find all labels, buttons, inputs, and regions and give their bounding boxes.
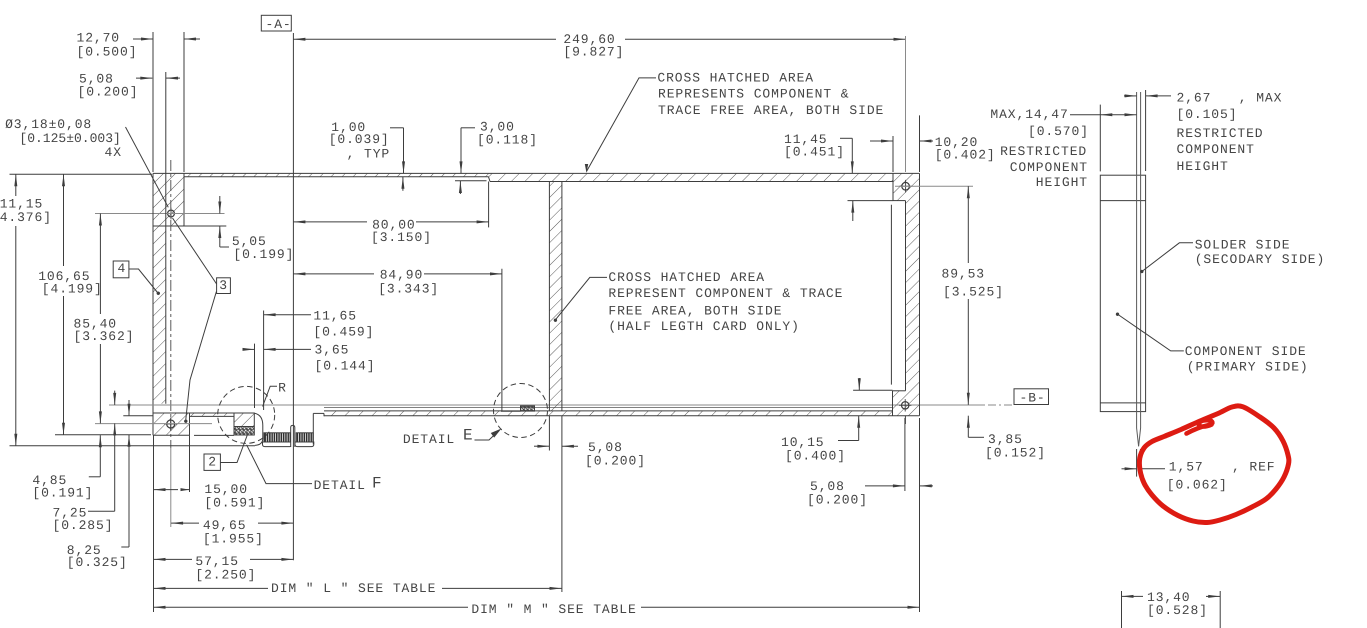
extension line x=184 top [183, 32, 185, 172]
bottom hole center line horizontal [95, 423, 212, 425]
svg-text:[0.528]: [0.528] [1147, 603, 1208, 618]
svg-text:(PRIMARY SIDE): (PRIMARY SIDE) [1187, 360, 1309, 375]
svg-text:, REF: , REF [1232, 460, 1276, 475]
extension line x=501.9 [501, 269, 503, 411]
svg-text:, TYP: , TYP [347, 147, 391, 162]
svg-text:2,67: 2,67 [1177, 90, 1212, 105]
svg-text:-B-: -B- [1020, 391, 1046, 406]
extension line x=919.5 top [919, 115, 921, 172]
leader of half-length note [555, 277, 607, 319]
card-edge connector fingers segment 2 [296, 433, 313, 445]
extension line envelope left edge top [1099, 105, 1101, 172]
svg-text:[0.039]: [0.039] [329, 132, 390, 147]
svg-text:2: 2 [208, 454, 217, 469]
leader item 4 [129, 269, 158, 293]
svg-text:[0.105]: [0.105] [1177, 107, 1238, 122]
svg-text:[1.955]: [1.955] [203, 532, 264, 547]
svg-text:3: 3 [219, 278, 228, 293]
top strip right bottom edge [490, 181, 893, 183]
svg-text:[0.199]: [0.199] [233, 247, 294, 262]
svg-text:CROSS HATCHED AREA: CROSS HATCHED AREA [608, 270, 765, 285]
top trace-free strip (left thin part) hatch [184, 173, 489, 176]
detail F block lower cross-hatch [234, 427, 254, 436]
bottom trace-free strip hatch [324, 411, 893, 416]
rounded slot right wall with radius R [255, 413, 263, 445]
svg-text:3,65: 3,65 [315, 343, 350, 358]
svg-text:[0.402]: [0.402] [935, 148, 996, 163]
detail E pad block [521, 406, 535, 411]
svg-text:-A-: -A- [266, 17, 292, 32]
leader solder side [1143, 243, 1194, 271]
svg-text:11,65: 11,65 [313, 309, 357, 324]
svg-text:COMPONENT SIDE: COMPONENT SIDE [1185, 344, 1307, 359]
bottom-left bracket block [153, 413, 190, 435]
mounting hole top-left [168, 210, 175, 217]
notch bottom edge line [194, 434, 234, 436]
keep-out line y=200.6 extension [848, 200, 894, 202]
extension line card right edge bottom [919, 418, 921, 612]
svg-text:, MAX: , MAX [1239, 90, 1283, 105]
left edge vertical chain line through holes [170, 160, 172, 448]
notch floor right of fingers [313, 412, 324, 414]
svg-text:[3.343]: [3.343] [378, 282, 439, 297]
keep-out line y=390.3 extension [853, 389, 892, 391]
detail F block upper hatch [234, 413, 254, 427]
extension line card left edge top [152, 32, 154, 172]
center hatched bar (half-length card limit) [549, 182, 562, 411]
svg-text:[0.125±0.003]: [0.125±0.003] [19, 131, 120, 146]
top-left block bottom extension [184, 225, 226, 227]
svg-text:4X: 4X [105, 145, 122, 160]
item box 4 [113, 261, 129, 278]
leader item 3 to bottom hole [186, 292, 217, 420]
svg-text:Ø3,18±0,08: Ø3,18±0,08 [5, 117, 92, 132]
item box 2 [204, 454, 220, 470]
inner boundary line right keep-out [890, 205, 892, 385]
side view PCB right surface [1140, 92, 1142, 428]
svg-text:[3.525]: [3.525] [943, 284, 1004, 299]
bracket bottom extension line [10, 445, 256, 447]
svg-text:1,57: 1,57 [1169, 460, 1204, 475]
extension line bar right edge [561, 416, 563, 592]
right wall of connector notch [312, 413, 314, 444]
svg-text:REPRESENTS COMPONENT &: REPRESENTS COMPONENT & [658, 86, 849, 101]
detail E dashed circle [494, 384, 548, 438]
extension line x=893 [892, 136, 894, 172]
svg-text:[0.285]: [0.285] [53, 518, 114, 533]
left strip inner edge / 5,08 extension line [165, 72, 167, 404]
svg-text:[4.376]: [4.376] [0, 210, 52, 225]
svg-text:RESTRICTED: RESTRICTED [1000, 144, 1087, 159]
svg-text:[3.150]: [3.150] [371, 230, 432, 245]
leader of top note [587, 78, 657, 172]
top trace-free strip (right part) hatch [489, 173, 894, 181]
thin sliver between bracket blocks [190, 413, 235, 416]
bottom-right corner keep-out block [893, 391, 920, 416]
svg-text:MAX,14,47: MAX,14,47 [990, 107, 1068, 122]
svg-text:(SECODARY SIDE): (SECODARY SIDE) [1195, 252, 1326, 267]
svg-text:F: F [372, 474, 383, 492]
leader detail F [247, 445, 312, 484]
mounting hole bottom-left [167, 420, 175, 428]
svg-text:[0.570]: [0.570] [1028, 124, 1089, 139]
extension line x=488.6 [488, 182, 490, 228]
envelope inner line bottom [1100, 402, 1145, 404]
extension line x=1220.2 [1219, 591, 1221, 628]
svg-text:89,53: 89,53 [942, 267, 986, 282]
block bottom extension line y=434.8 [55, 434, 151, 436]
top edge extension to left [10, 173, 153, 175]
top strip step [489, 177, 491, 182]
side view PCB left surface [1136, 92, 1138, 428]
svg-text:CROSS HATCHED AREA: CROSS HATCHED AREA [657, 71, 814, 86]
long -B- datum line [109, 404, 985, 406]
extension line x=904.9 [904, 418, 906, 491]
svg-text:[0.118]: [0.118] [477, 133, 538, 148]
finger segment 1 bottom cap [263, 442, 293, 447]
top hole center line horizontal [95, 213, 225, 215]
leader detail E [475, 431, 500, 441]
svg-text:SOLDER SIDE: SOLDER SIDE [1195, 237, 1291, 252]
svg-text:[0.451]: [0.451] [784, 145, 845, 160]
side view restricted envelope box [1100, 175, 1145, 411]
datum -A- line [292, 33, 294, 560]
top-right hole center line horizontal [895, 185, 973, 187]
envelope inner line top [1100, 200, 1145, 202]
svg-text:REPRESENT COMPONENT & TRACE: REPRESENT COMPONENT & TRACE [608, 286, 843, 301]
svg-text:DIM " L " SEE TABLE: DIM " L " SEE TABLE [271, 581, 436, 596]
svg-text:COMPONENT: COMPONENT [1177, 142, 1255, 157]
extension line hole center x=170.8 bottom [170, 448, 172, 527]
left trace-free strip hatch [153, 226, 166, 404]
top-right corner keep-out block [893, 173, 920, 200]
card-edge connector fingers segment 1 [264, 433, 290, 445]
card left edge [152, 173, 154, 435]
datum -A- box [261, 15, 291, 31]
mounting hole top-right [902, 182, 910, 190]
datum -B- box [1014, 389, 1049, 405]
svg-text:[0.200]: [0.200] [78, 84, 139, 99]
card bottom edge [324, 415, 920, 417]
leader item 3 to top hole [173, 218, 217, 284]
svg-text:(HALF LEGTH CARD ONLY): (HALF LEGTH CARD ONLY) [608, 319, 799, 334]
svg-text:[0.591]: [0.591] [204, 496, 265, 511]
top strip left bottom edge [184, 176, 489, 178]
finger segment 2 bottom cap [295, 442, 314, 447]
svg-text:[0.191]: [0.191] [32, 486, 93, 501]
svg-text:4: 4 [118, 261, 127, 276]
PCB bottom bevel tip [1137, 428, 1139, 446]
svg-text:RESTRICTED: RESTRICTED [1177, 126, 1264, 141]
mounting hole bottom-right [902, 402, 909, 409]
extension line x=189.5 bottom [189, 435, 191, 492]
svg-text:[0.459]: [0.459] [313, 324, 374, 339]
extension line envelope right edge top [1145, 90, 1147, 171]
leader to top-left hole [126, 127, 169, 207]
svg-text:[4.199]: [4.199] [42, 282, 103, 297]
svg-text:DETAIL: DETAIL [314, 478, 366, 493]
svg-text:FREE AREA, BOTH SIDE: FREE AREA, BOTH SIDE [608, 303, 782, 318]
top-left corner keep-out block [153, 173, 184, 226]
connector key post [291, 425, 295, 447]
right border hatched bar [906, 201, 920, 391]
red hand-drawn annotation circle [1139, 406, 1289, 523]
extension line x=1121.5 [1121, 591, 1123, 628]
svg-text:[0.325]: [0.325] [67, 555, 128, 570]
svg-text:[0.400]: [0.400] [785, 449, 846, 464]
extension line y=415.7 to left [123, 415, 152, 417]
svg-text:[3.362]: [3.362] [74, 329, 135, 344]
extension line x=254.5 [254, 344, 256, 408]
item box 3 [217, 278, 231, 294]
svg-text:DETAIL: DETAIL [403, 432, 455, 447]
svg-text:R: R [278, 380, 287, 395]
detail F dashed circle [218, 386, 275, 443]
svg-text:HEIGHT: HEIGHT [1177, 159, 1229, 174]
leader component side [1118, 315, 1184, 351]
svg-text:COMPONENT: COMPONENT [1010, 160, 1088, 175]
svg-text:12,70: 12,70 [77, 30, 121, 45]
svg-text:[0.144]: [0.144] [315, 358, 376, 373]
leader item 2 [220, 435, 247, 463]
extension line card left edge bottom [153, 435, 155, 612]
extension line x=905.5 gray [905, 36, 907, 172]
extension line x=263.6 [263, 311, 265, 411]
svg-text:[0.062]: [0.062] [1167, 477, 1228, 492]
svg-text:TRACE FREE AREA, BOTH SIDE: TRACE FREE AREA, BOTH SIDE [658, 103, 884, 118]
extension line bar left edge [548, 416, 550, 451]
svg-text:[0.200]: [0.200] [585, 454, 646, 469]
svg-text:HEIGHT: HEIGHT [1036, 175, 1088, 190]
svg-text:[0.500]: [0.500] [77, 45, 138, 60]
3,00 extension line under strip [455, 180, 487, 182]
svg-text:E: E [463, 427, 474, 445]
svg-text:[2.250]: [2.250] [195, 567, 256, 582]
svg-text:[9.827]: [9.827] [563, 45, 624, 60]
svg-text:84,90: 84,90 [380, 268, 424, 283]
svg-text:[0.152]: [0.152] [985, 446, 1046, 461]
card top edge [153, 172, 920, 174]
solder side line [324, 407, 893, 409]
svg-text:[0.200]: [0.200] [807, 493, 868, 508]
card right edge [919, 173, 921, 415]
svg-text:DIM " M " SEE TABLE: DIM " M " SEE TABLE [471, 602, 636, 617]
